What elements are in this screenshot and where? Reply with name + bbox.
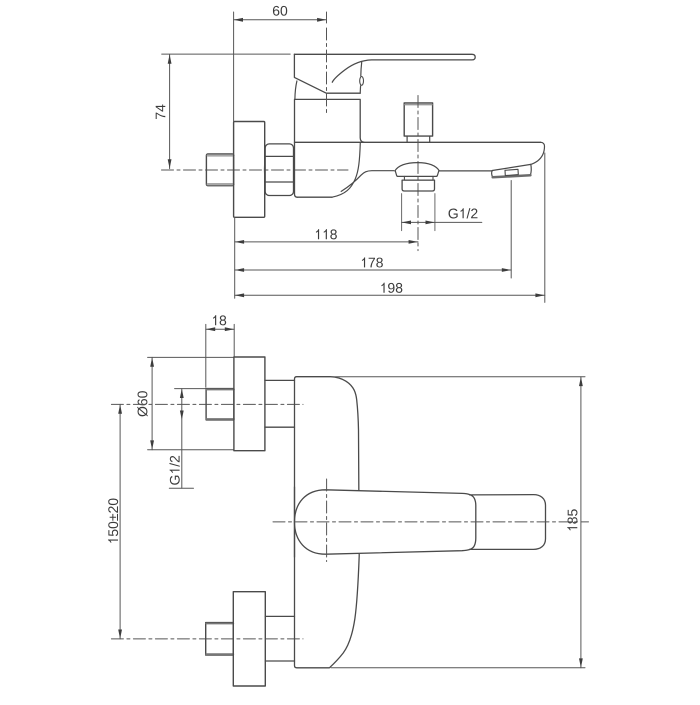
top inlet axis (front) <box>111 403 303 405</box>
dim 60 arrows <box>234 18 327 22</box>
top inlet pipe (front) <box>206 389 234 420</box>
cartridge cap <box>295 99 364 142</box>
handle center line <box>326 28 328 116</box>
dim 74 text <box>156 105 166 119</box>
diverter axis center line <box>417 96 419 251</box>
dim 178 <box>235 269 512 271</box>
bottom wall flange (front) <box>233 592 265 686</box>
body left edge <box>295 99 298 197</box>
diverter ring <box>402 180 434 191</box>
hex nut (side view) <box>265 144 295 196</box>
spout tip curve <box>531 142 545 164</box>
dim 18 <box>206 324 234 387</box>
dim 60 dimension line <box>234 12 327 121</box>
diverter dome <box>395 163 440 171</box>
handle right edge lower <box>359 86 361 93</box>
dim 60 text <box>273 6 287 16</box>
body bottom line <box>297 196 332 198</box>
shower port top thread line <box>405 104 432 106</box>
shower thread lines <box>402 194 435 231</box>
G1/2 label (front) <box>169 389 206 489</box>
inlet axis center line <box>162 169 349 171</box>
diverter cap <box>395 171 439 177</box>
common left extension for 118/178/198 <box>234 218 236 299</box>
top wall flange (front) <box>234 357 265 451</box>
aerator outlet piece <box>492 164 532 177</box>
inlet pipe (side view) <box>206 154 233 186</box>
wall flange (side view) <box>234 122 265 218</box>
handle capsule (front) <box>295 490 476 554</box>
dim 118 <box>235 241 418 243</box>
handle body front profile <box>294 54 360 93</box>
top hex nut (front) <box>265 380 295 427</box>
handle right edge upper <box>360 62 363 76</box>
body right contour curve A <box>332 143 360 198</box>
handle vertical center line (front) <box>326 479 328 562</box>
dim 74 arrows <box>168 54 172 168</box>
spout underside curve B <box>341 171 394 192</box>
bottom inlet pipe (front) <box>206 623 234 656</box>
bottom inlet axis (front) <box>111 638 303 640</box>
body left edge re-stroke across capsule <box>294 487 296 557</box>
dim Ø60 <box>148 357 234 449</box>
body top line <box>295 141 541 143</box>
dim 150±20 <box>119 404 121 639</box>
body underside right of diverter <box>440 170 493 172</box>
dim 198 <box>235 294 545 296</box>
dim 74 dimension line <box>162 54 291 169</box>
body outline (front) <box>295 377 360 668</box>
diverter neck band <box>404 176 433 180</box>
lever end (front) <box>470 495 546 550</box>
handle horizontal center line (front) <box>273 521 589 523</box>
handle skirt arc <box>295 81 297 99</box>
dim 185 <box>331 377 585 668</box>
shower port neck <box>407 136 430 142</box>
set screw oval <box>360 77 364 86</box>
shower port rect (top) <box>404 103 432 136</box>
dim G1/2 (top view) <box>402 221 482 223</box>
handle lever (side view) <box>294 54 475 82</box>
bottom hex nut (front) <box>265 616 294 661</box>
